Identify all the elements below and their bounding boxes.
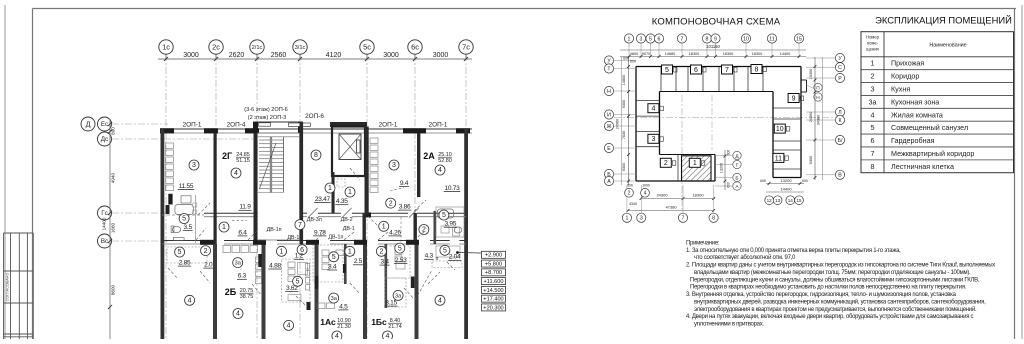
svg-text:9300: 9300 xyxy=(622,100,626,108)
svg-text:2.04: 2.04 xyxy=(449,254,461,261)
svg-text:4: 4 xyxy=(438,167,442,174)
svg-text:3: 3 xyxy=(640,216,643,222)
svg-text:2: 2 xyxy=(389,200,393,207)
svg-text:4: 4 xyxy=(651,106,655,113)
svg-text:2ОП-1: 2ОП-1 xyxy=(379,122,398,129)
svg-text:3.95: 3.95 xyxy=(444,221,456,228)
svg-text:14680: 14680 xyxy=(665,52,676,56)
svg-text:8600: 8600 xyxy=(111,284,116,295)
svg-text:9300: 9300 xyxy=(622,163,626,171)
svg-text:6.4: 6.4 xyxy=(238,229,247,236)
svg-text:3/1с: 3/1с xyxy=(295,45,306,51)
svg-text:2: 2 xyxy=(422,227,426,234)
svg-text:4: 4 xyxy=(234,170,238,177)
svg-text:10: 10 xyxy=(776,126,784,133)
svg-text:1. За относительную отм 0,000: 1. За относительную отм 0,000 принята от… xyxy=(686,248,901,254)
svg-text:1Ас: 1Ас xyxy=(320,317,336,327)
svg-text:3.5: 3.5 xyxy=(184,224,193,231)
svg-text:4.26: 4.26 xyxy=(389,229,401,236)
svg-text:3000: 3000 xyxy=(383,52,399,59)
svg-text:Перегородки, отделяющие кухни: Перегородки, отделяющие кухни и санузлы,… xyxy=(690,276,980,283)
svg-text:С: С xyxy=(838,65,842,71)
svg-text:8: 8 xyxy=(706,36,709,42)
svg-text:11: 11 xyxy=(769,36,774,42)
svg-text:14800: 14800 xyxy=(622,75,626,86)
svg-text:6с: 6с xyxy=(411,42,419,51)
svg-text:1: 1 xyxy=(382,224,386,231)
svg-text:4: 4 xyxy=(236,311,240,318)
svg-text:+20.300: +20.300 xyxy=(483,305,503,311)
svg-text:11: 11 xyxy=(775,155,782,162)
svg-text:7630: 7630 xyxy=(622,131,626,139)
svg-text:2Б: 2Б xyxy=(225,287,237,297)
svg-text:ЭКСПЛИКАЦИЯ ПОМЕЩЕНИЙ: ЭКСПЛИКАЦИЯ ПОМЕЩЕНИЙ xyxy=(875,15,1012,26)
svg-text:4120: 4120 xyxy=(326,52,342,59)
svg-text:18300: 18300 xyxy=(723,52,734,56)
svg-text:В: В xyxy=(838,173,842,179)
svg-text:ДВ-3л: ДВ-3л xyxy=(307,217,322,223)
svg-text:24960: 24960 xyxy=(616,119,620,130)
svg-text:23.47: 23.47 xyxy=(315,196,331,203)
svg-text:Дс: Дс xyxy=(101,136,108,143)
svg-text:2: 2 xyxy=(664,160,668,167)
svg-text:3.15: 3.15 xyxy=(385,300,397,307)
svg-text:3а: 3а xyxy=(395,293,402,299)
svg-text:2620: 2620 xyxy=(229,52,245,59)
svg-text:3: 3 xyxy=(651,136,655,143)
svg-text:2: 2 xyxy=(628,191,631,197)
svg-text:6: 6 xyxy=(871,136,875,145)
svg-text:1: 1 xyxy=(348,189,352,196)
svg-text:14400: 14400 xyxy=(780,52,791,56)
svg-text:Перегородки в квартирах необхо: Перегородки в квартирах необходимо устан… xyxy=(690,285,967,291)
svg-text:9070: 9070 xyxy=(642,52,650,56)
svg-text:4800: 4800 xyxy=(630,52,638,56)
svg-text:1: 1 xyxy=(222,224,226,231)
svg-text:ДВ-1: ДВ-1 xyxy=(343,226,355,232)
svg-text:8: 8 xyxy=(712,216,715,222)
svg-text:2.53: 2.53 xyxy=(395,257,407,264)
svg-text:24300: 24300 xyxy=(809,112,813,123)
svg-text:101160: 101160 xyxy=(706,44,720,49)
svg-text:п: п xyxy=(436,256,439,262)
svg-text:18300: 18300 xyxy=(692,193,704,198)
svg-text:1с: 1с xyxy=(162,42,170,51)
svg-text:1660: 1660 xyxy=(111,222,116,233)
svg-text:3.62: 3.62 xyxy=(286,285,298,292)
svg-text:1.2: 1.2 xyxy=(295,253,304,260)
svg-text:Гардеробная: Гардеробная xyxy=(891,136,935,145)
svg-text:А: А xyxy=(607,179,611,185)
svg-text:КОМПОНОВОЧНАЯ СХЕМА: КОМПОНОВОЧНАЯ СХЕМА xyxy=(652,17,781,28)
svg-text:5: 5 xyxy=(178,249,182,256)
svg-text:+2.900: +2.900 xyxy=(485,253,502,259)
svg-text:2ОП-6: 2ОП-6 xyxy=(305,113,324,120)
svg-text:11.9: 11.9 xyxy=(239,204,251,211)
svg-text:3: 3 xyxy=(192,162,196,169)
svg-text:5с: 5с xyxy=(363,42,371,51)
svg-text:4.35: 4.35 xyxy=(336,198,348,205)
svg-text:ДВ-1п: ДВ-1п xyxy=(267,227,282,233)
svg-text:Кухонная зона: Кухонная зона xyxy=(891,97,939,106)
svg-text:3000: 3000 xyxy=(183,52,199,59)
svg-text:СОГЛАСОВАНО: СОГЛАСОВАНО xyxy=(6,273,10,302)
svg-text:Р: Р xyxy=(838,76,842,82)
svg-text:3.4: 3.4 xyxy=(380,259,389,266)
svg-text:13: 13 xyxy=(775,198,781,203)
svg-text:Примечание:: Примечание: xyxy=(686,241,720,247)
svg-text:1: 1 xyxy=(625,216,628,222)
svg-text:3: 3 xyxy=(640,36,643,42)
svg-text:+5.800: +5.800 xyxy=(485,261,502,267)
svg-text:Л: Л xyxy=(838,110,841,116)
svg-text:3. Внутренняя отделка, устройс: 3. Внутренняя отделка, устройство перего… xyxy=(686,291,957,298)
svg-text:8: 8 xyxy=(314,152,318,159)
svg-text:600: 600 xyxy=(727,150,731,156)
svg-text:(3-6 этаж) 2ОП-6: (3-6 этаж) 2ОП-6 xyxy=(244,107,287,113)
svg-text:2.5: 2.5 xyxy=(354,258,363,265)
svg-text:1: 1 xyxy=(693,160,697,167)
svg-text:2ОП-4: 2ОП-4 xyxy=(227,122,246,129)
svg-text:4: 4 xyxy=(287,323,291,330)
svg-text:Б/: Б/ xyxy=(838,138,843,144)
svg-text:2.85: 2.85 xyxy=(179,260,191,267)
svg-text:1000: 1000 xyxy=(642,184,650,188)
svg-text:1: 1 xyxy=(348,249,352,256)
svg-text:9: 9 xyxy=(714,36,717,42)
svg-text:7: 7 xyxy=(871,149,875,158)
svg-text:3а: 3а xyxy=(235,260,242,266)
svg-text:13200: 13200 xyxy=(720,163,724,174)
svg-text:4: 4 xyxy=(644,191,647,197)
svg-text:4.5: 4.5 xyxy=(339,303,348,310)
svg-text:ДВ-1п: ДВ-1п xyxy=(328,234,343,240)
svg-text:поме-: поме- xyxy=(867,41,879,46)
svg-text:3: 3 xyxy=(392,162,396,169)
svg-text:4. Двери на путях эвакуации, в: 4. Двери на путях эвакуации, включая вхо… xyxy=(686,313,974,320)
svg-text:2ОП-1: 2ОП-1 xyxy=(183,122,202,129)
svg-text:4.3: 4.3 xyxy=(425,253,434,260)
svg-text:800: 800 xyxy=(111,127,116,135)
svg-text:5: 5 xyxy=(871,123,875,132)
svg-text:1: 1 xyxy=(328,185,332,192)
svg-text:Межквартирный коридор: Межквартирный коридор xyxy=(891,149,974,158)
svg-text:3000: 3000 xyxy=(433,52,449,59)
svg-text:П: П xyxy=(816,85,820,91)
svg-text:1: 1 xyxy=(871,59,875,68)
svg-text:3а: 3а xyxy=(869,97,877,106)
svg-text:Г: Г xyxy=(736,162,739,168)
svg-text:600: 600 xyxy=(627,184,633,188)
svg-text:7: 7 xyxy=(298,222,302,229)
svg-text:14400: 14400 xyxy=(780,187,792,192)
svg-text:15: 15 xyxy=(796,198,802,203)
svg-text:щения: щения xyxy=(866,47,879,52)
svg-text:3а: 3а xyxy=(331,296,338,302)
svg-text:уплотнениями в притворах.: уплотнениями в притворах. xyxy=(694,322,764,328)
svg-text:600: 600 xyxy=(630,60,636,64)
svg-text:5: 5 xyxy=(182,216,186,223)
svg-text:21.74: 21.74 xyxy=(388,324,402,330)
svg-text:600: 600 xyxy=(802,179,808,183)
svg-text:4: 4 xyxy=(871,110,875,119)
svg-text:ДВ-2: ДВ-2 xyxy=(341,217,353,223)
svg-text:14400: 14400 xyxy=(102,217,107,230)
svg-text:6: 6 xyxy=(694,67,698,74)
svg-text:Лестничная клетка: Лестничная клетка xyxy=(891,162,954,171)
svg-text:2: 2 xyxy=(204,248,208,255)
svg-text:электрооборудования в квартира: электрооборудования в квартирах проектом… xyxy=(694,306,977,313)
svg-text:4: 4 xyxy=(438,298,442,305)
svg-text:47380: 47380 xyxy=(665,205,677,210)
svg-text:18300: 18300 xyxy=(689,52,700,56)
svg-text:8: 8 xyxy=(871,162,875,171)
svg-text:Гс: Гс xyxy=(101,210,108,217)
svg-text:5: 5 xyxy=(443,248,447,255)
svg-text:2.0: 2.0 xyxy=(204,262,213,269)
svg-text:9300: 9300 xyxy=(809,156,813,164)
svg-text:2Г: 2Г xyxy=(222,151,232,161)
svg-text:7: 7 xyxy=(725,67,729,74)
svg-text:7: 7 xyxy=(681,36,684,42)
svg-text:34380: 34380 xyxy=(817,115,821,126)
svg-text:1Бс: 1Бс xyxy=(371,317,387,327)
svg-text:600: 600 xyxy=(623,57,629,61)
svg-text:внутриквартирных дверей, разво: внутриквартирных дверей, разводка инжене… xyxy=(694,298,986,305)
svg-text:2560: 2560 xyxy=(271,52,287,59)
svg-text:Д: Д xyxy=(86,119,91,128)
svg-text:15300: 15300 xyxy=(809,69,813,80)
svg-text:Совмещенный санузел: Совмещенный санузел xyxy=(891,123,968,132)
svg-text:38.75: 38.75 xyxy=(240,294,254,300)
svg-text:Вс: Вс xyxy=(101,238,108,245)
svg-text:Ес: Ес xyxy=(101,121,108,128)
svg-text:15: 15 xyxy=(796,36,802,42)
svg-text:ДВ-1: ДВ-1 xyxy=(287,235,299,241)
svg-text:51.15: 51.15 xyxy=(236,158,250,164)
svg-text:Прихожая: Прихожая xyxy=(891,59,924,68)
svg-text:6: 6 xyxy=(658,36,661,42)
svg-text:8: 8 xyxy=(755,66,759,73)
svg-text:605: 605 xyxy=(760,179,766,183)
svg-text:5: 5 xyxy=(442,212,446,219)
svg-text:+17.400: +17.400 xyxy=(483,297,503,303)
svg-text:что соответствует абсолютной о: что соответствует абсолютной отм. 97,0 xyxy=(694,254,796,261)
svg-text:9: 9 xyxy=(792,95,796,102)
svg-text:10: 10 xyxy=(743,36,749,42)
svg-text:Наименование: Наименование xyxy=(929,43,966,49)
svg-text:7: 7 xyxy=(682,216,685,222)
svg-text:Б: Б xyxy=(735,175,738,181)
svg-text:13200: 13200 xyxy=(780,178,792,183)
svg-text:Кухня: Кухня xyxy=(891,85,910,94)
svg-text:9.78: 9.78 xyxy=(314,229,326,236)
svg-text:4340: 4340 xyxy=(629,202,637,206)
svg-text:+8.700: +8.700 xyxy=(485,270,502,276)
svg-text:18300: 18300 xyxy=(752,52,763,56)
svg-text:Коридор: Коридор xyxy=(891,72,919,81)
svg-text:3.4: 3.4 xyxy=(328,263,337,270)
svg-text:14: 14 xyxy=(788,198,794,203)
svg-text:владельцами квартир (межкомнат: владельцами квартир (межкомнатные перего… xyxy=(694,270,971,276)
svg-text:4: 4 xyxy=(188,298,192,305)
svg-text:2: 2 xyxy=(379,249,383,256)
svg-text:Жилая комната: Жилая комната xyxy=(891,110,943,119)
svg-text:5: 5 xyxy=(332,254,336,261)
svg-text:4: 4 xyxy=(335,333,339,339)
svg-text:5: 5 xyxy=(665,67,669,74)
svg-text:4940: 4940 xyxy=(111,172,116,183)
svg-text:2: 2 xyxy=(871,72,875,81)
svg-text:600: 600 xyxy=(727,182,731,188)
svg-text:2/1с: 2/1с xyxy=(252,45,263,51)
svg-text:24300: 24300 xyxy=(656,193,668,198)
svg-text:2А: 2А xyxy=(423,151,435,161)
svg-text:9.4: 9.4 xyxy=(400,180,409,187)
svg-text:52.80: 52.80 xyxy=(438,158,452,164)
svg-text:7с: 7с xyxy=(462,42,470,51)
svg-text:2с: 2с xyxy=(212,42,220,51)
svg-text:3.86: 3.86 xyxy=(399,204,411,211)
svg-text:2ОП-1: 2ОП-1 xyxy=(429,122,448,129)
svg-text:1: 1 xyxy=(280,249,284,256)
svg-text:5: 5 xyxy=(398,245,402,252)
svg-text:Н: Н xyxy=(607,89,611,95)
svg-text:11.55: 11.55 xyxy=(179,183,194,190)
svg-text:Н: Н xyxy=(816,95,820,101)
svg-text:3: 3 xyxy=(871,85,875,94)
svg-text:4.88: 4.88 xyxy=(269,262,281,269)
svg-text:(2 этаж) 2ОП-3: (2 этаж) 2ОП-3 xyxy=(248,115,286,121)
svg-text:6.3: 6.3 xyxy=(238,273,247,280)
svg-text:+11.600: +11.600 xyxy=(484,279,504,285)
svg-text:+14.500: +14.500 xyxy=(483,288,503,294)
svg-text:К: К xyxy=(838,118,841,124)
svg-text:4: 4 xyxy=(386,333,390,339)
svg-text:5: 5 xyxy=(649,36,652,42)
svg-text:21.30: 21.30 xyxy=(337,324,351,330)
svg-text:1: 1 xyxy=(628,36,631,42)
svg-text:10.73: 10.73 xyxy=(444,185,460,192)
svg-text:12: 12 xyxy=(767,198,773,203)
svg-text:2. Площади квартир даны с учет: 2. Площади квартир даны с учетом внутрик… xyxy=(686,263,995,269)
svg-text:Ж: Ж xyxy=(607,124,612,130)
svg-text:И: И xyxy=(607,112,611,118)
svg-text:Е: Е xyxy=(607,146,611,152)
svg-text:Номер: Номер xyxy=(866,35,880,40)
